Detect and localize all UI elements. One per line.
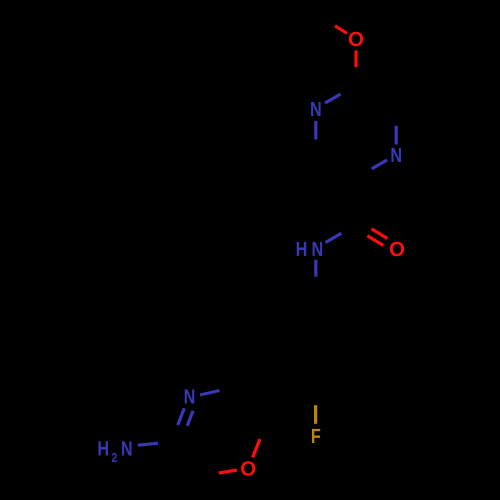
C-F half-bond (314, 405, 317, 424)
svg-text:N: N (311, 238, 323, 261)
svg-text:O: O (389, 238, 405, 261)
amide C=O lower line (367, 236, 383, 246)
amide C=O upper line (372, 229, 388, 239)
svg-text:N: N (390, 144, 402, 167)
svg-text:H: H (97, 438, 109, 461)
pyrazine N se up (395, 126, 398, 145)
oxazine C3=N4 double right (187, 411, 193, 426)
amide HN to benzene (314, 260, 317, 277)
svg-text:O: O (348, 28, 364, 51)
pyrazine N nw down (314, 121, 317, 140)
svg-text:O: O (240, 458, 256, 481)
oxazine O1 to C2 (219, 470, 237, 473)
svg-text:N: N (184, 386, 196, 409)
methoxy O-ring half-bond (354, 50, 357, 67)
amide HN to carbonyl C (326, 233, 342, 242)
pyrazine N se to bottom C (372, 160, 388, 169)
oxazine C3=N4 double left (178, 408, 185, 425)
svg-text:F: F (311, 425, 321, 448)
oxazine O1 to C6 (253, 439, 260, 458)
H2N to C3 (138, 443, 158, 445)
svg-text:2: 2 (111, 450, 117, 465)
svg-text:N: N (121, 438, 133, 461)
oxazine N4 to C5 (200, 391, 220, 396)
svg-text:H: H (296, 238, 308, 261)
svg-text:N: N (310, 98, 322, 121)
methoxy O-CH3 half-bond (335, 26, 347, 34)
pyrazine N nw to top C (325, 94, 341, 103)
